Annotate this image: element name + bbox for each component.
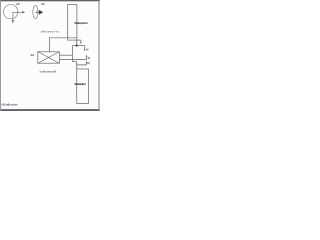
tank Blocked position 3	[68, 4, 77, 40]
junction dot	[76, 44, 78, 46]
svg-text:⊕ offset arrow sW: ⊕ offset arrow sW	[39, 70, 57, 73]
svg-text:Blocked position 3: Blocked position 3	[75, 22, 89, 25]
tank3 bottom outlet stub	[80, 40, 82, 44]
wheel side-view ellipse	[33, 6, 38, 19]
wheel right arrow	[13, 11, 25, 13]
wheel top-view circle	[4, 5, 18, 19]
frame left	[0, 0, 2, 111]
jog into tank2 wall	[72, 61, 76, 63]
tank2 top outlet stub C	[77, 61, 87, 65]
tank3 bottom extension	[77, 39, 81, 41]
tank2 inlet wall segment	[76, 62, 78, 70]
mixer upper outlet	[60, 54, 73, 56]
svg-text:Sto: Sto	[31, 54, 35, 57]
pipe L3 left drop	[71, 46, 73, 62]
pipe L3 horizontal	[72, 45, 84, 47]
ellipse arrow	[35, 10, 43, 15]
frame bottom	[0, 109, 100, 111]
background	[0, 0, 100, 111]
frame right	[98, 0, 99, 111]
svg-text:offset arrows Vw: offset arrows Vw	[41, 30, 59, 33]
mixer lower outlet stub B	[60, 55, 88, 60]
svg-text:Blocked position 2: Blocked position 2	[74, 83, 86, 86]
svg-text:MNI traffic surface: MNI traffic surface	[1, 103, 18, 107]
mixer crossed box	[38, 52, 60, 63]
wheel down arrow	[12, 12, 14, 23]
pipe from mixer top to tank3	[49, 38, 77, 52]
tank Blocked position 2	[77, 69, 89, 104]
frame top	[0, 0, 100, 1]
pipe L3 right drop arrow	[84, 46, 86, 51]
tank3 right wall drop	[76, 40, 78, 45]
